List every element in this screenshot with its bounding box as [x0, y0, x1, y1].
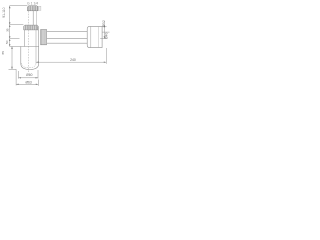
svg-text:G 1 1/4: G 1 1/4	[27, 1, 38, 5]
svg-text:91-110: 91-110	[2, 7, 6, 17]
svg-text:50: 50	[5, 40, 9, 44]
svg-text:240: 240	[70, 58, 76, 62]
svg-text:35: 35	[5, 28, 9, 32]
svg-text:Ø63: Ø63	[25, 80, 31, 84]
svg-text:Ø32: Ø32	[102, 20, 106, 27]
svg-text:Ø60: Ø60	[26, 73, 32, 77]
svg-text:85: 85	[1, 51, 5, 55]
svg-text:Ø40: Ø40	[105, 33, 109, 39]
